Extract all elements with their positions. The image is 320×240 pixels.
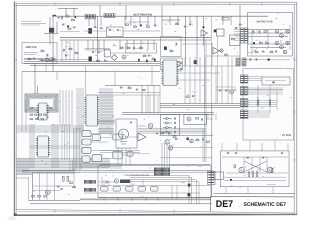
wire bbox=[171, 186, 173, 200]
wire bbox=[56, 72, 58, 81]
wire bundle shield to IC601 bbox=[60, 90, 72, 126]
scan speckle bbox=[17, 7, 293, 210]
capacitor C702 bbox=[258, 30, 261, 32]
wire bbox=[99, 5, 101, 16]
wire bbox=[22, 71, 84, 73]
part row bottom bbox=[255, 51, 278, 53]
transistor Q640 bbox=[229, 90, 233, 94]
relay box K601 bbox=[172, 62, 181, 67]
logic gate U308 bbox=[113, 151, 123, 159]
driver box bbox=[184, 114, 207, 124]
transistor Q707 bbox=[283, 50, 286, 53]
wire bbox=[251, 30, 253, 56]
transistor Q901 bbox=[239, 167, 244, 172]
frame inner bottom bbox=[16, 209, 295, 213]
connector CN704 bbox=[242, 58, 246, 66]
wire vertical c3 bbox=[203, 16, 205, 46]
transistor Q805 dark bbox=[188, 193, 191, 196]
capacitor C641 bbox=[120, 86, 122, 89]
connector CN702 bbox=[245, 28, 249, 43]
wire bbox=[28, 177, 30, 200]
capacitor C642 bbox=[180, 68, 183, 70]
wire bbox=[98, 181, 116, 183]
wire bbox=[37, 86, 39, 94]
wire bbox=[207, 113, 209, 119]
op-amp U603 bbox=[201, 30, 207, 36]
svg-text:OUTPUT PCB: OUTPUT PCB bbox=[257, 20, 273, 23]
IC IC201 bbox=[38, 136, 49, 157]
diode D640 bbox=[163, 117, 172, 120]
wire bus gate inputs bbox=[74, 128, 82, 170]
shield box innermost bbox=[29, 98, 55, 109]
component row2 under shield bbox=[30, 119, 44, 120]
resistor R703 bbox=[266, 42, 269, 43]
wire bbox=[267, 30, 269, 48]
capacitor C902 bbox=[262, 156, 264, 159]
motor M601 bbox=[119, 129, 129, 139]
diode matrix box bbox=[161, 114, 180, 135]
wire bus BOTTOM PCB top edge bbox=[52, 15, 268, 17]
IC U604 bbox=[217, 29, 225, 36]
frame inner top bbox=[16, 4, 297, 7]
wire drops row1 bbox=[89, 16, 155, 26]
border ticks right bbox=[294, 60, 298, 160]
transistor Q622 bbox=[220, 49, 223, 52]
AMP/F PCB box bbox=[22, 43, 57, 64]
motor box bbox=[116, 119, 137, 148]
wire bbox=[239, 5, 241, 66]
resistor R801 bbox=[257, 100, 259, 105]
logic gate U305 bbox=[92, 135, 100, 141]
diode D643 bbox=[163, 131, 172, 134]
wire bbox=[17, 174, 33, 176]
resistor R607 bbox=[97, 60, 100, 61]
wire bbox=[221, 66, 223, 103]
title block divider vertical bbox=[210, 196, 212, 211]
wire cross couple bbox=[244, 161, 267, 172]
wire bbox=[52, 16, 54, 71]
wire bbox=[151, 66, 153, 86]
OUTPUT PCB box bbox=[247, 13, 292, 57]
wire bbox=[168, 134, 213, 136]
wire grid right of IC601 bbox=[142, 95, 158, 115]
wire horiz bundle upper bbox=[17, 126, 85, 132]
capacitor C901 bbox=[246, 156, 248, 159]
IC IC101 bbox=[39, 103, 48, 120]
logic gate U301 bbox=[82, 131, 91, 137]
wire bbox=[100, 164, 210, 166]
border ticks top bbox=[55, 2, 262, 6]
wire long bbox=[84, 71, 160, 73]
wire bbox=[24, 58, 50, 60]
wire vertical c2 bbox=[196, 16, 198, 66]
capacitor C102 bbox=[62, 23, 64, 26]
caps row top bbox=[227, 152, 283, 155]
transistor Q621 dark bbox=[164, 47, 167, 50]
sub box B1 bbox=[107, 27, 124, 37]
capacitor C621 bbox=[189, 23, 191, 26]
sub box C3 bbox=[161, 58, 183, 70]
corner smudge bbox=[8, 216, 17, 220]
wire verticals right of IC602 bbox=[185, 57, 205, 104]
logic gate U309 bbox=[127, 151, 133, 156]
transistor Q804 dark bbox=[188, 184, 191, 187]
wire bus bottom long bbox=[22, 171, 213, 173]
wire verticals fm bbox=[162, 143, 170, 174]
scan corner blob bbox=[14, 213, 17, 216]
capacitor C604 bbox=[117, 29, 119, 32]
capacitor C631 bbox=[168, 132, 170, 135]
resistor R152 bbox=[69, 48, 72, 49]
title block divider horizontal bbox=[211, 195, 295, 198]
wire bbox=[211, 103, 213, 196]
transistor Q630 bbox=[148, 124, 153, 129]
wire bbox=[269, 85, 271, 113]
wire bbox=[178, 65, 241, 67]
capacitor C662 bbox=[174, 126, 177, 128]
VF PCB box bbox=[243, 69, 294, 140]
component row under shield bbox=[30, 114, 46, 115]
wire bbox=[100, 150, 140, 152]
resistor R903 bbox=[234, 165, 235, 168]
transistor Q636 bbox=[190, 139, 194, 143]
shield box innermost2 bbox=[30, 99, 53, 107]
motor terminal marks bbox=[120, 142, 127, 145]
wire bbox=[49, 17, 51, 29]
wire bbox=[207, 118, 214, 120]
wire harness mid bbox=[248, 88, 283, 94]
wire bbox=[236, 143, 238, 151]
svg-text:SCHEMAITIC DE7: SCHEMAITIC DE7 bbox=[244, 202, 287, 208]
connector comb left1 bbox=[85, 180, 96, 184]
wire mesh left of IC201 bbox=[30, 124, 34, 168]
wire bbox=[21, 72, 23, 133]
wire bbox=[274, 140, 276, 151]
power box label bbox=[267, 184, 276, 186]
transistor Q704 bbox=[280, 45, 284, 49]
diode D701 bbox=[253, 42, 255, 44]
capacitor C633 bbox=[175, 138, 177, 141]
wire bbox=[105, 85, 160, 87]
wire bbox=[170, 147, 213, 149]
capacitor C501 bbox=[57, 185, 59, 188]
wire bus band2 bbox=[24, 59, 160, 65]
junction cluster bbox=[53, 15, 60, 19]
wire bbox=[56, 22, 58, 34]
wire mesh right of IC201 bbox=[52, 124, 58, 168]
capacitor C630 bbox=[156, 132, 158, 135]
logic gate U307 bbox=[113, 134, 123, 140]
diode D601 bbox=[140, 25, 142, 27]
capacitor C152 bbox=[63, 49, 66, 51]
wire pair bbox=[80, 198, 211, 201]
scan bottom edge bbox=[14, 213, 297, 216]
parts left of VF bbox=[219, 89, 229, 92]
wire bbox=[58, 7, 78, 9]
transistor Q151 bbox=[50, 58, 54, 62]
op-amp U631 bbox=[138, 133, 146, 141]
resistor R621 on bus bbox=[222, 18, 229, 20]
wire bbox=[276, 90, 278, 110]
sub box B3 bbox=[126, 44, 157, 54]
wire long bottom bbox=[30, 203, 212, 205]
transistor Q152 bbox=[45, 58, 49, 62]
wire bbox=[160, 157, 212, 159]
transistor Q705 bbox=[286, 30, 289, 33]
wire pair horiz bbox=[85, 49, 111, 51]
wire bbox=[33, 190, 61, 192]
resistor R101 bbox=[66, 16, 69, 17]
resistor R641 bbox=[128, 87, 131, 88]
wire routing nest verticals bbox=[189, 176, 199, 204]
wire verticals midtop bbox=[142, 85, 160, 113]
component row bl bbox=[32, 196, 47, 197]
diode bridge D602 bbox=[111, 55, 117, 61]
capacitor C609 bbox=[104, 59, 106, 62]
wire bbox=[161, 20, 163, 37]
border ticks left bbox=[14, 60, 17, 160]
diode D641 bbox=[163, 122, 172, 125]
logic gate U304 bbox=[82, 156, 90, 162]
wire bus mid bbox=[122, 113, 214, 115]
capacitor C154 bbox=[33, 57, 35, 60]
wire bbox=[250, 47, 286, 49]
wire bus right of IC601 bbox=[100, 88, 112, 133]
wire bbox=[125, 5, 127, 20]
wire vertical c1 bbox=[185, 16, 187, 66]
wire mesh verticals bl2 bbox=[70, 160, 75, 171]
capacitor C153 bbox=[65, 54, 67, 57]
wire bbox=[45, 64, 47, 72]
resistor R156 bbox=[52, 59, 55, 60]
resistor R702 bbox=[260, 42, 263, 43]
wire bbox=[244, 59, 290, 61]
dark cap row bbox=[138, 59, 156, 62]
wire bbox=[161, 5, 163, 20]
resistor R634 bbox=[207, 141, 210, 142]
resistor R606 bbox=[140, 47, 143, 48]
frame left bbox=[15, 3, 17, 211]
small box AC bbox=[214, 172, 224, 180]
wire bbox=[215, 66, 217, 103]
capacitor C603 bbox=[109, 29, 111, 32]
wire exit bbox=[248, 48, 258, 53]
scan left edge bbox=[13, 2, 15, 216]
transistor Q703 bbox=[275, 41, 279, 45]
diode D801 bbox=[106, 181, 109, 184]
paper sheet bbox=[14, 1, 298, 215]
wire bbox=[114, 72, 116, 86]
wire verticals below motor bbox=[118, 148, 130, 166]
wire bbox=[98, 94, 160, 96]
wire bbox=[211, 44, 213, 66]
wire bus lower bbox=[160, 104, 240, 108]
wire bbox=[85, 66, 87, 95]
sub box B2 bbox=[104, 50, 110, 57]
wire ribbon bbox=[234, 30, 240, 41]
wire mesh horiz lower bbox=[17, 159, 111, 168]
diode D801 dark bbox=[268, 59, 270, 61]
part pair bbox=[136, 89, 145, 91]
resistor R630 bbox=[161, 133, 164, 134]
wire bbox=[261, 143, 263, 151]
transistor Q637 bbox=[165, 140, 169, 144]
connector CN701 bbox=[241, 28, 245, 43]
wire bbox=[224, 180, 286, 182]
capacitor C601 bbox=[94, 26, 96, 29]
wire stubs right of IC601 bbox=[100, 97, 114, 124]
svg-text:VF PCB: VF PCB bbox=[282, 134, 291, 137]
box outline bbox=[29, 173, 81, 201]
resistor R501 bbox=[63, 176, 65, 181]
wire bbox=[49, 34, 51, 45]
capacitor C151 bbox=[46, 54, 49, 56]
sub box C2 bbox=[230, 35, 241, 46]
shield box outer bbox=[25, 94, 58, 112]
scan left edge shading bbox=[15, 2, 17, 215]
transistor Q638 bbox=[168, 146, 172, 150]
transistor Q620 dark bbox=[214, 30, 217, 33]
wire bbox=[60, 31, 80, 33]
wire bbox=[65, 8, 67, 16]
capacitor C801 bbox=[249, 58, 252, 60]
diode D101 bbox=[75, 17, 77, 19]
wire bus verticals left bbox=[62, 40, 78, 62]
transistor Q602 dark bbox=[89, 57, 92, 62]
resistor R155 bbox=[40, 59, 43, 60]
wire bbox=[25, 100, 27, 132]
capacitor C661 bbox=[174, 122, 177, 124]
wire bbox=[73, 173, 75, 189]
capacitor C502 bbox=[60, 188, 62, 191]
indicator box bbox=[262, 77, 290, 85]
wire routing bundle C bbox=[138, 129, 206, 134]
wire mesh verticals bottom-left bbox=[18, 159, 28, 174]
capacitor C701 bbox=[252, 30, 255, 32]
indicator label bbox=[265, 81, 286, 84]
resistor R603 bbox=[147, 26, 150, 27]
wire vertical main bbox=[97, 16, 99, 61]
wire bbox=[162, 19, 180, 21]
capacitor C620 bbox=[184, 25, 186, 28]
wire bbox=[227, 57, 229, 103]
frame inner right bbox=[293, 5, 295, 214]
connector comb left2 bbox=[85, 188, 96, 192]
wire bbox=[34, 64, 36, 95]
capacitor C625 dark bbox=[194, 60, 197, 64]
component ref label texture bbox=[24, 14, 291, 197]
wire bbox=[176, 186, 178, 200]
gate row bbox=[101, 187, 159, 192]
wire bbox=[216, 86, 236, 88]
diode D620 bbox=[203, 27, 205, 29]
wire bbox=[211, 16, 213, 103]
resistor R640 bbox=[186, 96, 189, 97]
wire verticals dcdc bbox=[244, 157, 267, 173]
resistor R624 bbox=[232, 39, 235, 40]
diode D102 bbox=[67, 26, 69, 28]
wire bbox=[98, 197, 211, 199]
wire ticks below box bbox=[104, 198, 158, 200]
wire bbox=[248, 43, 290, 45]
resistor R631 bbox=[173, 136, 176, 137]
logic gate U303 bbox=[82, 147, 91, 153]
scan right edge bbox=[296, 2, 298, 215]
resistor R601 bbox=[126, 24, 129, 25]
wire harness low bbox=[248, 101, 277, 107]
wire bbox=[214, 192, 296, 194]
connector CN803 bbox=[240, 99, 248, 108]
scan top edge bbox=[14, 0, 297, 2]
transistor Q902 bbox=[267, 167, 272, 172]
wire bbox=[178, 79, 211, 81]
capacitor C663 bbox=[174, 131, 177, 133]
wire bbox=[287, 143, 289, 151]
frame outer top bbox=[16, 2, 297, 5]
wire bus left of IC601 bbox=[77, 88, 83, 130]
wire bbox=[248, 32, 290, 34]
wire bbox=[206, 55, 240, 57]
resistor R620 bbox=[176, 24, 179, 25]
capacitor C623 bbox=[239, 23, 241, 26]
border ticks bottom bbox=[55, 209, 174, 212]
resistor R151 bbox=[41, 51, 44, 52]
wire routing nest bbox=[130, 176, 199, 182]
capacitor C103 bbox=[73, 26, 75, 29]
wire drops row2 bbox=[88, 40, 154, 50]
wire drops below power box bbox=[226, 187, 273, 194]
sub box C1 bbox=[161, 37, 182, 57]
resistor R161 bbox=[50, 107, 53, 108]
logic gate U302 bbox=[82, 139, 91, 145]
capacitor C643 bbox=[192, 95, 194, 98]
capacitor C632 bbox=[201, 118, 204, 120]
resistor R604 bbox=[120, 47, 123, 48]
wire bbox=[216, 89, 236, 91]
frame outer right bbox=[296, 3, 298, 215]
wire bbox=[178, 72, 221, 74]
resistor R633 bbox=[196, 140, 199, 141]
resistor R602 bbox=[134, 26, 137, 27]
resistor R504 bbox=[67, 176, 69, 181]
resistor R622 bbox=[170, 51, 173, 52]
connector CN601 bbox=[85, 14, 96, 19]
capacitor C607 bbox=[98, 51, 100, 54]
capacitor C802 bbox=[255, 58, 258, 60]
wire bbox=[41, 60, 57, 62]
transistor Q632 bbox=[187, 117, 191, 121]
transistor Q701 bbox=[275, 30, 279, 34]
wire bbox=[128, 21, 150, 23]
wire bbox=[249, 140, 251, 151]
frame outer bottom bbox=[16, 211, 297, 214]
capacitor C101 bbox=[61, 16, 64, 18]
wire bbox=[17, 177, 29, 179]
wire bbox=[98, 92, 160, 94]
wire bbox=[222, 156, 288, 158]
transistor Q706 bbox=[286, 41, 289, 44]
wire drops rowC bbox=[170, 16, 231, 25]
wire vertical pair mid bbox=[205, 35, 218, 129]
power box bbox=[221, 151, 289, 187]
connector CN802 bbox=[240, 87, 248, 96]
capacitor C634 bbox=[202, 138, 204, 141]
svg-text:BOTTOM PCB: BOTTOM PCB bbox=[134, 14, 153, 17]
resistor R103 bbox=[68, 28, 71, 29]
transistor Q603 bbox=[122, 55, 126, 59]
wire verticals bl bbox=[40, 173, 55, 201]
resistor R802 bbox=[269, 100, 271, 105]
